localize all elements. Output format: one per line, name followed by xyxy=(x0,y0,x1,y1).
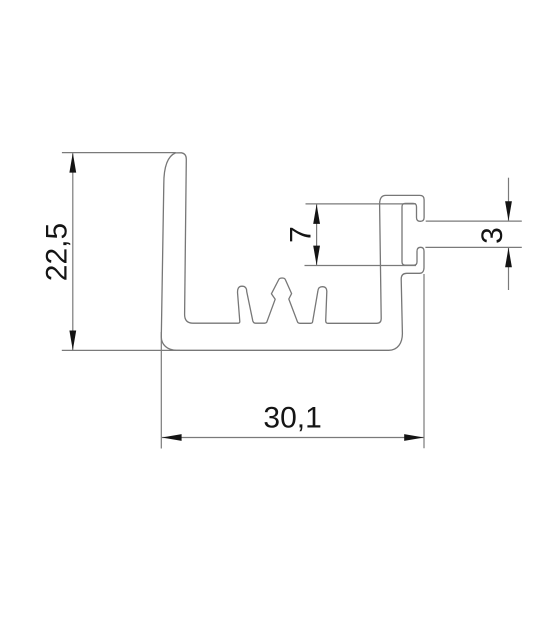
dimension 7 : top extension line xyxy=(306,203,417,205)
dimension 7 : upper arrow xyxy=(313,204,320,224)
dimension 22,5 : lower arrow xyxy=(69,331,76,351)
svg-text:7: 7 xyxy=(285,226,318,243)
dimension 30,1 : dimension line xyxy=(162,437,424,439)
dimension 3 : upper arrow (points down) xyxy=(505,201,512,221)
svg-text:22,5: 22,5 xyxy=(41,223,74,281)
dimension 22,5 : bottom extension line xyxy=(62,349,180,351)
dimension 30,1 : left arrow xyxy=(162,434,182,441)
svg-text:3: 3 xyxy=(476,227,509,244)
dimension 3 : bottom extension line (tab bottom edge) xyxy=(425,246,521,248)
dimension 30,1 : right arrow xyxy=(404,434,424,441)
dimension 30,1 : right extension line xyxy=(423,274,425,448)
svg-text:30,1: 30,1 xyxy=(263,402,321,435)
dimension 22,5 : dimension line xyxy=(72,153,74,350)
dimension 3 : top extension line (tab top edge) xyxy=(426,220,522,222)
dimension 22,5 : upper arrow xyxy=(69,153,76,173)
dimension 7 : dimension line xyxy=(316,204,318,265)
dimension 30,1 : left extension line xyxy=(160,332,162,449)
dimension 3 : lower dimension line segment xyxy=(508,248,510,291)
dimension 7 : bottom extension line xyxy=(305,265,417,267)
profile outline (aluminium extrusion cross-section) xyxy=(161,153,424,350)
dimension 22,5 : top extension line xyxy=(62,152,176,154)
dimension 3 : upper dimension line segment xyxy=(508,178,510,221)
dimension 3 : lower arrow (points up) xyxy=(505,248,512,268)
dimension 7 : lower arrow xyxy=(313,246,320,266)
